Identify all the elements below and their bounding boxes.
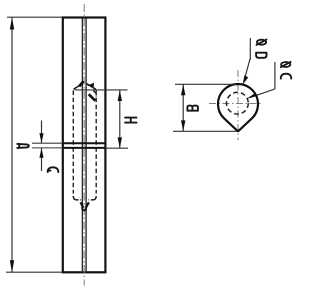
bore circle dashed [227, 92, 249, 114]
dimension A upper leader line [41, 121, 43, 143]
centerline vertical [83, 4, 85, 286]
tick mark lower right [89, 94, 96, 101]
teardrop outline [218, 84, 258, 131]
label H [125, 118, 136, 123]
dimension G lower leader line [41, 148, 43, 171]
knuckle gap line upper [63, 142, 106, 144]
overall dimension top arrowhead [10, 17, 14, 29]
dimension H bottom arrowhead [118, 137, 122, 148]
section vertical centerline [237, 70, 239, 140]
knuckle gap line lower [63, 147, 106, 149]
section horizontal centerline [209, 103, 263, 105]
dimension G up arrowhead [39, 148, 43, 158]
leader OC arrowhead [246, 93, 257, 99]
wire: top-left extension line [7, 16, 63, 18]
dimension B top arrowhead [181, 84, 185, 95]
chevron left wing [74, 84, 83, 90]
dimension A down arrowhead [39, 133, 43, 143]
dimension H top arrowhead [118, 90, 122, 101]
B top extension line [175, 83, 236, 85]
leader OD landing line [249, 38, 251, 60]
slot line left [81, 19, 83, 272]
hidden bore right dashed [95, 91, 97, 194]
dimension B bottom arrowhead [181, 120, 185, 131]
label B [187, 106, 198, 111]
label OC : diameter symbol [281, 62, 291, 67]
leader OD arrowhead [243, 75, 249, 85]
overall length dimension line [11, 18, 13, 273]
gap upper extension line left [32, 142, 63, 144]
label OC : letter C [281, 74, 291, 79]
wire: bottom-left extension line [6, 271, 63, 273]
hidden bore bottom left corner [73, 196, 81, 200]
leader OC landing line [274, 62, 276, 89]
gap lower extension line left [32, 147, 63, 149]
bore cone V right [86, 202, 89, 207]
hidden bore right shoulder dashed arc [93, 91, 96, 97]
wedge mark upper left [79, 81, 83, 86]
hidden bore left dashed [72, 91, 74, 194]
B bottom extension line [173, 130, 237, 132]
label G [48, 167, 59, 172]
dimension B line [182, 85, 184, 132]
overall dimension bottom arrowhead [10, 260, 14, 272]
slot line right [85, 19, 87, 272]
body outline rectangle [63, 18, 106, 273]
label OD : letter D [256, 53, 266, 58]
H top extension line [75, 89, 128, 91]
leader OD diagonal [245, 58, 250, 77]
dimension H line [119, 90, 121, 148]
wedge mark right [87, 83, 94, 87]
hidden bore bottom right corner [89, 196, 97, 200]
leader OC diagonal [250, 89, 275, 98]
label A [17, 144, 29, 148]
bore cone V left [81, 202, 84, 207]
label OD : diameter symbol [257, 40, 267, 45]
chevron right wing [87, 84, 96, 90]
bore tip cup [82, 207, 86, 211]
H bottom extension line [105, 147, 128, 149]
